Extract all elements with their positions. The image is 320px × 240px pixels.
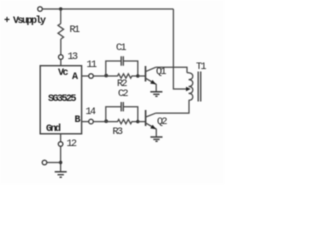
ground Q2 emitter [150, 137, 162, 141]
label C2 [118, 90, 127, 100]
label pin 12 [67, 140, 76, 150]
transistor Q2 [146, 110, 157, 137]
wire pin A stub [82, 75, 89, 77]
wire center-tap from rail [173, 9, 186, 89]
wire top supply rail [42, 8, 173, 10]
wire to Q2 base [138, 121, 146, 123]
wire C2 left riser [106, 107, 121, 122]
node B-right junction [136, 120, 139, 123]
capacitor C1 [121, 56, 123, 65]
resistor R3 [106, 119, 138, 123]
pin 13 terminal [59, 55, 64, 60]
label R2 [117, 80, 126, 90]
pin 14 terminal [89, 119, 94, 124]
wire pin B stub [82, 121, 89, 123]
label Gnd [46, 125, 60, 135]
wire pin14 to node [93, 121, 105, 123]
resistor R1 [58, 24, 64, 40]
transistor Q1 [146, 66, 157, 92]
label Vc [58, 69, 67, 79]
label A [72, 73, 77, 83]
node B-left junction [104, 119, 108, 123]
terminal +Vsupply [38, 7, 43, 12]
wire to Q1 base [138, 75, 146, 77]
node A-right junction [136, 74, 139, 77]
label pin 14 [86, 108, 95, 118]
transformer T1 core [198, 72, 201, 102]
capacitor C2 [121, 102, 123, 111]
label T1 [196, 63, 205, 73]
node supply junction [59, 7, 62, 10]
wire C2 right riser [123, 107, 138, 122]
ground Q1 emitter [150, 92, 162, 97]
wire R1 top lead [60, 9, 62, 24]
wire C1 left riser [106, 61, 121, 76]
terminal ground input [42, 160, 47, 165]
pin 12 terminal [58, 142, 63, 147]
ground main [55, 172, 67, 177]
center-tap arrow [186, 87, 191, 92]
pin 11 terminal [89, 74, 94, 79]
wire pin12 down to ground [60, 146, 62, 172]
resistor R2 [106, 74, 138, 78]
wire R1 bottom lead [60, 39, 62, 55]
node A-left junction [104, 74, 108, 78]
wire C1 right riser [123, 61, 138, 76]
op-amp U1 SG3525 box [40, 66, 81, 134]
wire terminal to junction [47, 162, 61, 164]
node ground junction [59, 161, 62, 164]
wire pin12 from IC [60, 134, 62, 142]
wire Q1 collector to T1 top [156, 67, 187, 73]
label Q1 [156, 68, 165, 78]
label B [75, 116, 80, 126]
label pin 11 [87, 61, 96, 71]
wire pin13 to IC [60, 59, 62, 65]
label C1 [116, 44, 125, 54]
label SG3525 [48, 95, 75, 105]
label Q2 [157, 118, 166, 128]
wire pin11 to node [93, 75, 105, 77]
label +Vsupply [4, 17, 45, 27]
wire Q2 collector to T1 bottom [156, 100, 189, 113]
label R3 [113, 128, 122, 138]
transformer T1 primary winding [187, 73, 193, 101]
label R1 [70, 26, 79, 36]
label pin 13 [68, 53, 77, 63]
